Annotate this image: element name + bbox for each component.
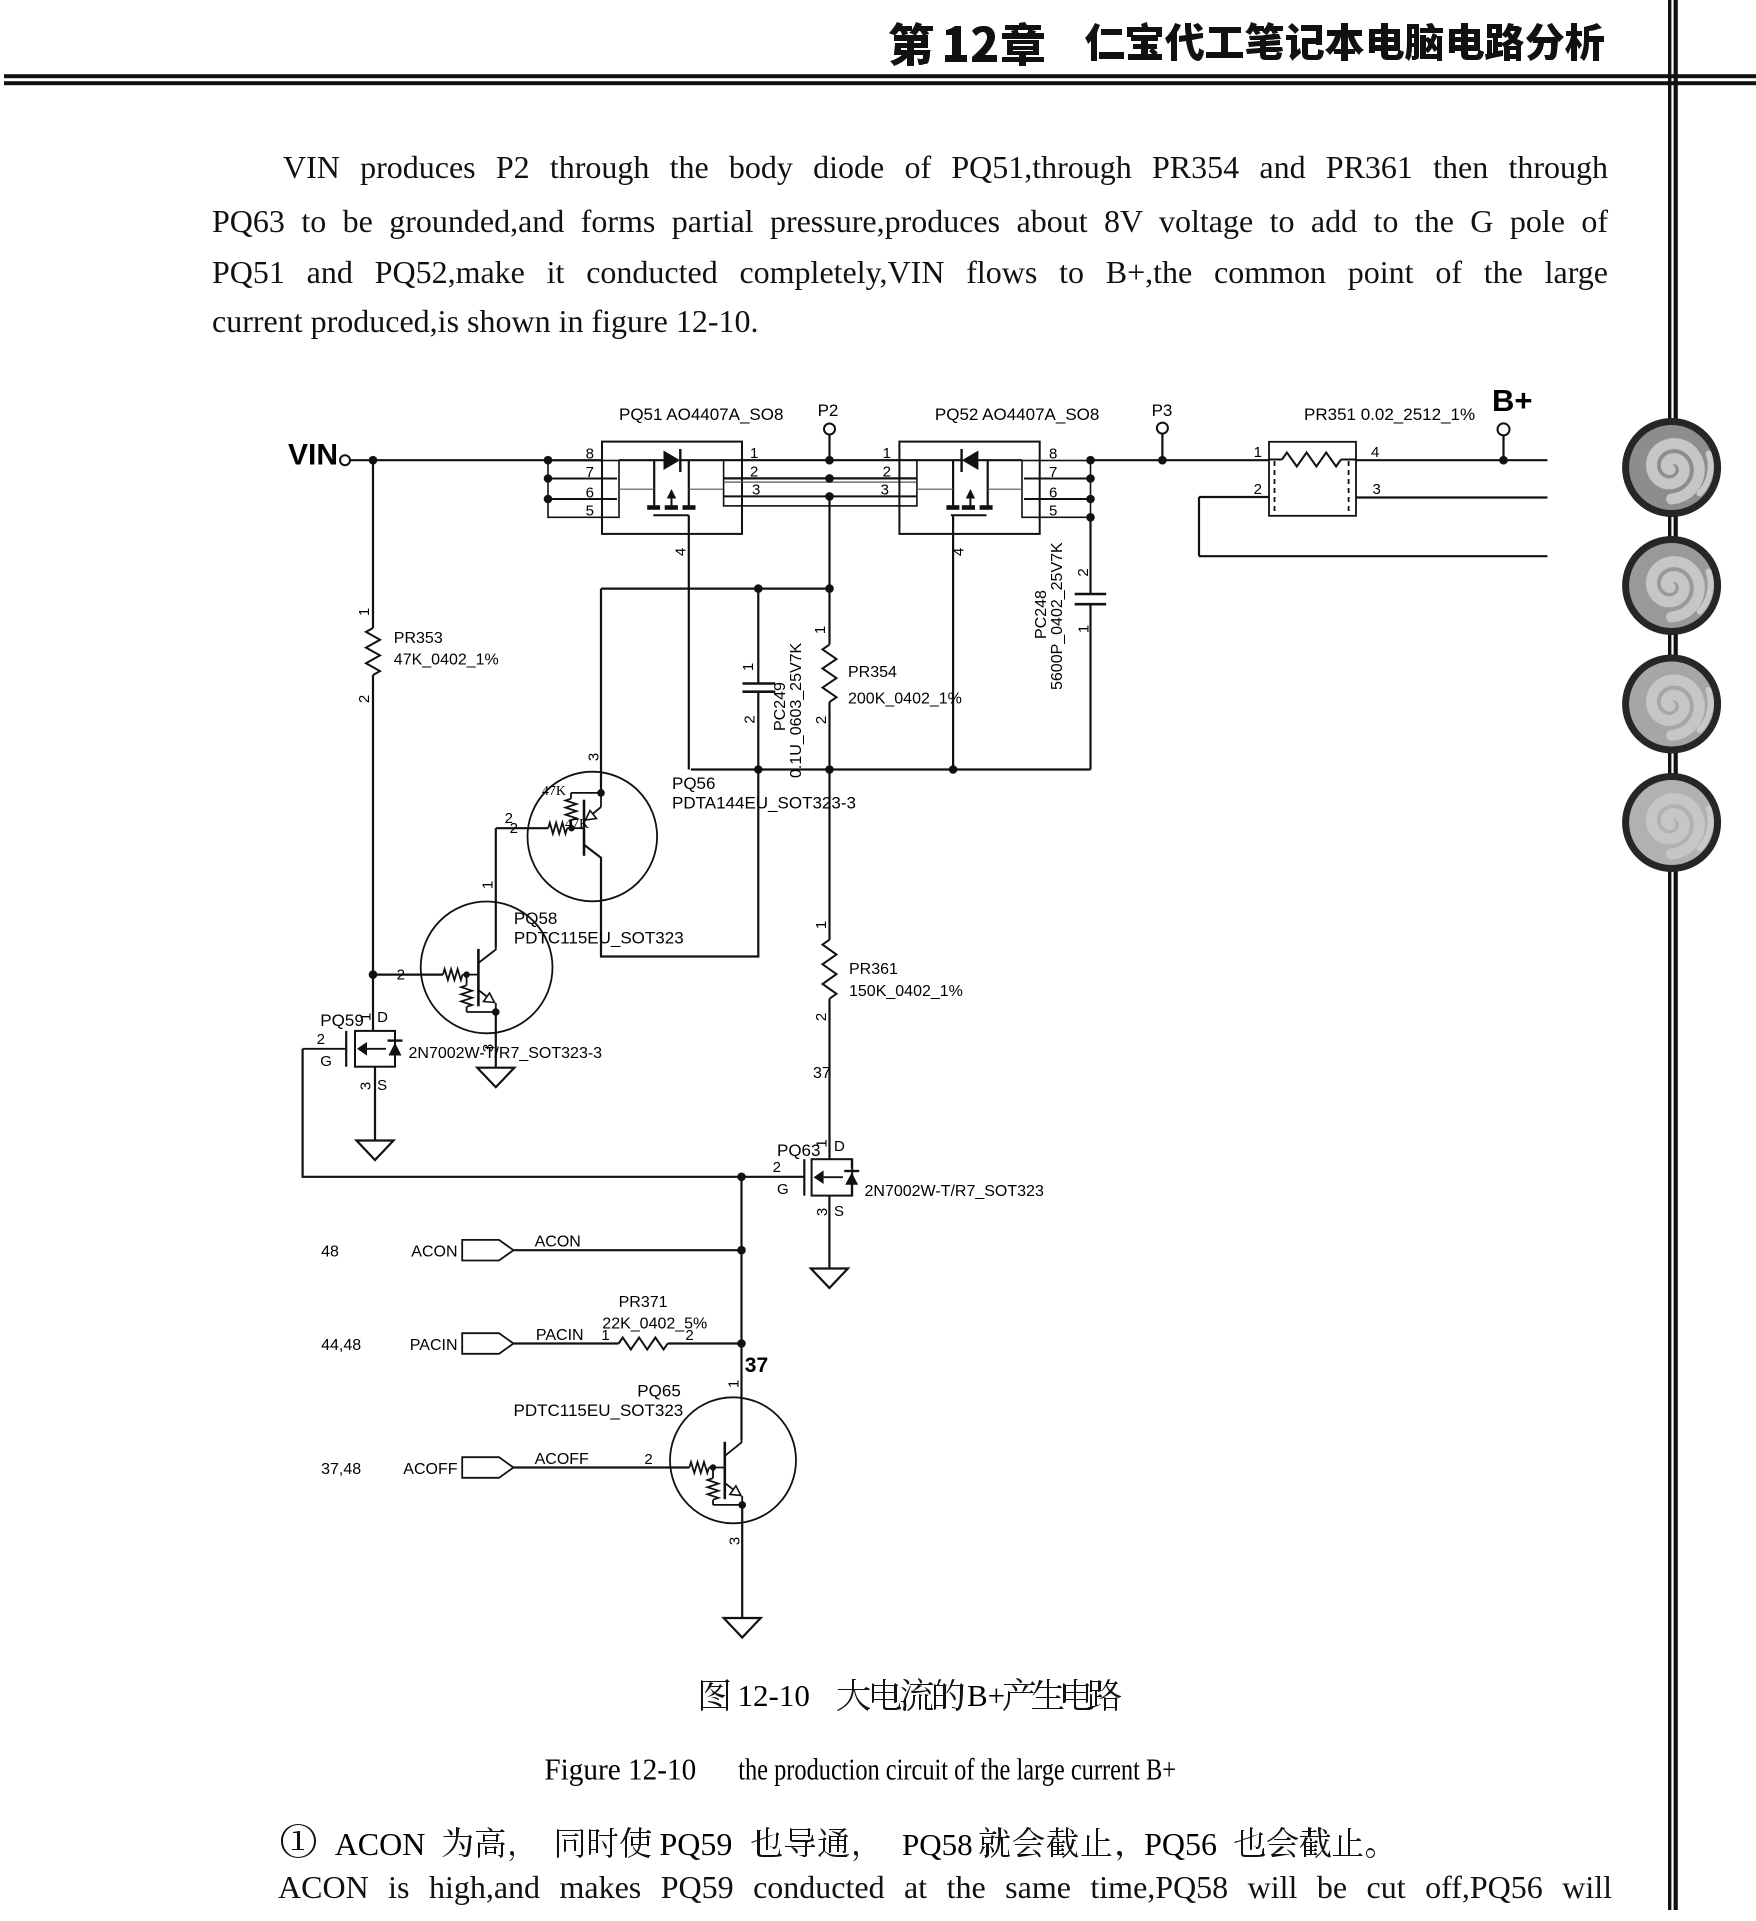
svg-text:8: 8: [1049, 446, 1057, 463]
ornament circle 3: [1626, 658, 1718, 750]
PQ58 base bar: [477, 949, 480, 1006]
svg-text:G: G: [777, 1181, 789, 1198]
PQ51 pin dots: [544, 456, 553, 465]
svg-text:2: 2: [505, 810, 513, 827]
VIN terminal: [340, 455, 350, 465]
chapter header 第 12 章: [889, 22, 933, 66]
svg-text:ACOFF: ACOFF: [403, 1461, 457, 1478]
svg-text:4: 4: [672, 548, 689, 556]
PQ56 emitter w/ arrow: [600, 793, 602, 807]
PQ52 body arrow: [969, 496, 971, 508]
svg-text:Figure 12-10: Figure 12-10: [544, 1752, 696, 1787]
paragraph line 2: [212, 203, 1608, 255]
right border double line: [1668, 0, 1671, 1910]
ornament circle 2: [1626, 540, 1718, 632]
PQ58 circle: [421, 902, 553, 1034]
PQ51 outer box: [602, 442, 742, 534]
ground PQ58: [477, 1068, 514, 1088]
PQ58 internal resistor: [466, 975, 468, 986]
svg-text:PACIN: PACIN: [410, 1337, 458, 1354]
svg-text:2: 2: [397, 967, 405, 984]
PQ63 body diode: [851, 1159, 853, 1168]
wire PR351 pin2: [1199, 496, 1269, 498]
svg-text:ACON: ACON: [535, 1234, 581, 1251]
svg-text:PDTA144EU_SOT323-3: PDTA144EU_SOT323-3: [672, 794, 856, 813]
svg-text:2: 2: [317, 1031, 325, 1048]
svg-text:2: 2: [644, 1451, 652, 1468]
paragraph line with circled 1: [281, 1824, 316, 1858]
svg-text:ACON: ACON: [335, 1826, 426, 1862]
svg-text:2: 2: [750, 463, 758, 480]
PQ56 collector: [584, 770, 758, 957]
svg-text:6: 6: [1049, 485, 1057, 502]
svg-text:0.1U_0603_25V7K: 0.1U_0603_25V7K: [788, 642, 805, 778]
svg-text:PR351 0.02_2512_1%: PR351 0.02_2512_1%: [1304, 405, 1475, 424]
PQ58 emitter w/ arrow: [478, 990, 488, 998]
svg-text:PQ56: PQ56: [1144, 1826, 1217, 1862]
svg-text:2: 2: [883, 463, 891, 480]
svg-text:150K_0402_1%: 150K_0402_1%: [849, 983, 963, 1000]
connector ACON: [462, 1240, 513, 1261]
PQ51 gate thin rows: [619, 488, 654, 490]
svg-text:PACIN: PACIN: [536, 1327, 584, 1344]
paragraph line 3: [212, 254, 1608, 306]
svg-text:3: 3: [585, 753, 602, 761]
PQ51 drain leg: [653, 460, 655, 507]
svg-text:B+: B+: [967, 1678, 1005, 1713]
ground PQ65: [724, 1618, 761, 1638]
svg-text:1: 1: [740, 663, 757, 671]
paragraph line 1: [212, 149, 1608, 201]
PQ51 body arrow: [671, 496, 673, 508]
PQ51 pin4 lead: [688, 515, 690, 769]
PR351 zigzag: [1282, 453, 1341, 467]
svg-text:1: 1: [1075, 625, 1092, 633]
PQ51 body diode: [664, 451, 681, 471]
P2 riser to lower net: [828, 496, 830, 588]
paragraph line 4: [212, 303, 1608, 340]
PQ56 internal resistor: [571, 792, 601, 794]
PQ52 outer box: [899, 442, 1039, 534]
wire left drop to PQ56: [600, 589, 602, 793]
svg-text:3: 3: [752, 482, 760, 499]
wire PR351 pin3 out: [1356, 496, 1547, 498]
svg-text:PR354: PR354: [848, 664, 897, 681]
pin box inner line: [724, 481, 917, 483]
svg-text:4: 4: [1371, 444, 1379, 461]
PQ51 left pin box: [548, 461, 619, 518]
PQ58 emitter to ground: [495, 1012, 497, 1068]
wire VIN to PQ51: [350, 459, 602, 461]
PQ63 gate bar: [803, 1159, 805, 1195]
svg-text:4: 4: [950, 548, 967, 556]
svg-text:12-10: 12-10: [738, 1678, 810, 1713]
PQ65 emitter to ground: [741, 1505, 743, 1618]
svg-text:6: 6: [586, 485, 594, 502]
ground PQ63: [811, 1269, 848, 1289]
PQ51 source leg: [688, 460, 690, 507]
svg-text:47K: 47K: [565, 817, 589, 832]
PQ63 inner arrow: [814, 1170, 824, 1184]
svg-text:3: 3: [1373, 481, 1381, 498]
PQ63 box: [812, 1159, 853, 1195]
wire row 2: [724, 477, 917, 479]
svg-text:PQ52 AO4407A_SO8: PQ52 AO4407A_SO8: [935, 405, 1099, 424]
PQ52 gate electrode: [951, 514, 987, 516]
PQ52 legs: [952, 460, 954, 507]
svg-text:D: D: [377, 1009, 388, 1026]
svg-text:PDTC115EU_SOT323: PDTC115EU_SOT323: [514, 1401, 684, 1420]
svg-text:PQ51 AO4407A_SO8: PQ51 AO4407A_SO8: [619, 405, 783, 424]
svg-text:1: 1: [356, 608, 373, 616]
svg-text:PR371: PR371: [619, 1294, 668, 1311]
svg-text:47K_0402_1%: 47K_0402_1%: [394, 652, 499, 669]
PQ52 pin wires: [1024, 478, 1091, 480]
svg-text:PDTC115EU_SOT323: PDTC115EU_SOT323: [514, 929, 684, 948]
resistor PR353: [366, 628, 380, 675]
PQ51 gate electrode: [653, 514, 689, 516]
svg-text:PQ56: PQ56: [672, 774, 715, 793]
svg-text:2N7002W-T/R7_SOT323: 2N7002W-T/R7_SOT323: [865, 1183, 1044, 1200]
svg-text:2: 2: [1254, 481, 1262, 498]
capacitor PC248: [1075, 593, 1107, 596]
PQ51 channel bars: [647, 505, 660, 510]
svg-text:7: 7: [586, 464, 594, 481]
PQ58 collector wire to PQ56 base: [495, 828, 497, 947]
svg-text:8: 8: [586, 446, 594, 463]
header rule top: [4, 74, 1756, 78]
svg-text:2: 2: [1075, 568, 1092, 576]
header rule bottom: [4, 81, 1756, 85]
svg-text:PC249: PC249: [772, 682, 789, 731]
PQ52 pin4 lead: [952, 515, 954, 769]
svg-text:7: 7: [1049, 464, 1057, 481]
svg-text:1: 1: [725, 1380, 742, 1388]
svg-text:3: 3: [726, 1537, 743, 1545]
wire row 3: [724, 495, 917, 497]
svg-text:200K_0402_1%: 200K_0402_1%: [848, 691, 962, 708]
PQ59 box: [355, 1031, 395, 1067]
svg-text:1: 1: [1254, 444, 1262, 461]
PQ59 gate bar: [345, 1031, 347, 1067]
svg-text:47K: 47K: [542, 784, 566, 799]
svg-text:2: 2: [773, 1159, 781, 1176]
svg-text:S: S: [377, 1077, 387, 1094]
svg-text:1: 1: [812, 626, 829, 634]
svg-text:37,48: 37,48: [321, 1461, 361, 1478]
row junction dots P2: [825, 456, 834, 465]
wire row 1: [724, 459, 917, 461]
PQ52 gate thin rows: [917, 488, 953, 490]
svg-text:B+: B+: [1492, 383, 1533, 418]
svg-text:5: 5: [1049, 503, 1057, 520]
svg-text:5600P_0402_25V7K: 5600P_0402_25V7K: [1049, 542, 1066, 690]
vertical ACON/PACIN node: [740, 1177, 742, 1345]
PQ59 gate net wire: [303, 1049, 805, 1177]
connector PACIN: [462, 1333, 513, 1354]
PQ58 base wire/resistor: [373, 973, 443, 975]
svg-text:the production circuit of the: the production circuit of the large curr…: [738, 1752, 1176, 1787]
svg-text:44,48: 44,48: [321, 1337, 361, 1354]
svg-text:P2: P2: [818, 401, 839, 420]
connector ACOFF: [462, 1457, 513, 1478]
svg-text:G: G: [320, 1053, 332, 1070]
PQ65 collector diag: [725, 1440, 742, 1456]
PQ56 emitter node: [597, 789, 605, 797]
PQ51 top row wire with body diode: [619, 459, 664, 461]
svg-text:ACON: ACON: [411, 1244, 457, 1261]
svg-text:1: 1: [357, 1013, 374, 1021]
svg-text:1: 1: [813, 921, 830, 929]
svg-text:1: 1: [813, 1139, 830, 1147]
svg-text:22K_0402_5%: 22K_0402_5%: [602, 1316, 707, 1333]
svg-text:ACOFF: ACOFF: [535, 1451, 589, 1468]
PQ51 pin wires 7 6: [548, 478, 617, 480]
wire PR353 to PQ59 drain: [372, 675, 374, 1031]
wire lower return: [1198, 497, 1200, 556]
svg-text:37: 37: [745, 1354, 768, 1377]
svg-text:37: 37: [813, 1065, 831, 1082]
svg-text:PQ58: PQ58: [902, 1827, 973, 1862]
wire PQ52 to PR351: [1091, 459, 1270, 461]
svg-text:48: 48: [321, 1244, 339, 1261]
bottom justified line: [278, 1869, 1612, 1921]
svg-text:2N7002W-T/R7_SOT323-3: 2N7002W-T/R7_SOT323-3: [409, 1045, 603, 1062]
PQ56 circle: [528, 772, 658, 902]
svg-text:1: 1: [883, 445, 891, 462]
PQ51/PQ52 shared pin box: [724, 460, 917, 506]
svg-text:PC248: PC248: [1033, 590, 1050, 639]
capacitor PC249: [757, 589, 759, 684]
wire ACON: [514, 1249, 742, 1251]
svg-text:VIN: VIN: [288, 439, 338, 472]
PQ59 drain lead: [372, 1030, 374, 1032]
resistor PR354: [828, 589, 830, 645]
PQ63 source to ground: [828, 1196, 830, 1269]
svg-text:P3: P3: [1152, 401, 1173, 420]
svg-text:2: 2: [741, 715, 758, 723]
PQ65 circle: [670, 1397, 796, 1523]
svg-text:D: D: [834, 1138, 845, 1155]
wire mid horizontal y588: [601, 587, 830, 589]
wire PACIN w/ PR371: [514, 1342, 619, 1344]
ornament circle 4: [1626, 777, 1718, 869]
svg-text:S: S: [834, 1203, 844, 1220]
PQ65 collector riser: [740, 1344, 742, 1441]
ground PQ59: [357, 1141, 394, 1161]
svg-text:PR353: PR353: [394, 630, 443, 647]
svg-text:PQ59: PQ59: [660, 1826, 733, 1862]
svg-text:1: 1: [479, 881, 496, 889]
junction PQ58 base: [369, 970, 378, 979]
svg-text:PQ65: PQ65: [637, 1382, 680, 1401]
svg-text:PR361: PR361: [849, 961, 898, 978]
PQ52 drain riser to PC248: [1089, 517, 1091, 594]
chapter header title 仁宝代工笔记本电脑电路分析: [1085, 22, 1604, 61]
PQ59 source to ground: [374, 1067, 376, 1141]
wire PR353 column upper: [372, 460, 374, 628]
PQ56 base bar: [583, 800, 586, 856]
PQ52 top row wire with body diode: [917, 459, 962, 461]
PQ65 base bar: [723, 1442, 726, 1499]
svg-text:2: 2: [813, 716, 830, 724]
PQ59 body diode: [394, 1031, 396, 1040]
resistor PR361: [828, 770, 830, 940]
PQ56 base resistor: [496, 827, 548, 829]
PQ58 collector: [478, 947, 495, 963]
svg-text:3: 3: [357, 1082, 374, 1090]
PQ52 right pin box: [1022, 461, 1091, 518]
svg-text:2: 2: [356, 695, 373, 703]
PQ52 body diode (mirrored): [962, 451, 979, 471]
wire G-node horizontal: [691, 768, 1091, 770]
svg-text:2: 2: [813, 1013, 830, 1021]
PQ59 gate wire: [303, 1048, 347, 1050]
ornament circle 1: [1626, 422, 1718, 514]
PQ52 pin dots: [1086, 456, 1095, 465]
svg-text:1: 1: [750, 445, 758, 462]
PQ52 channel bars: [946, 505, 959, 510]
PQ65 internal resistor: [712, 1468, 714, 1479]
junction at PR353 top: [369, 456, 378, 465]
PR351 box: [1269, 442, 1356, 516]
svg-text:5: 5: [586, 503, 594, 520]
figure caption chinese 图 12-10 大电流的 B+产生电路: [701, 1679, 730, 1711]
wire B+ out: [1356, 459, 1547, 461]
PQ59 inner arrow: [357, 1042, 367, 1056]
PR351 dashed sense lines: [1274, 461, 1276, 514]
PQ65 emitter w/ arrow: [725, 1483, 735, 1491]
svg-text:3: 3: [881, 482, 889, 499]
